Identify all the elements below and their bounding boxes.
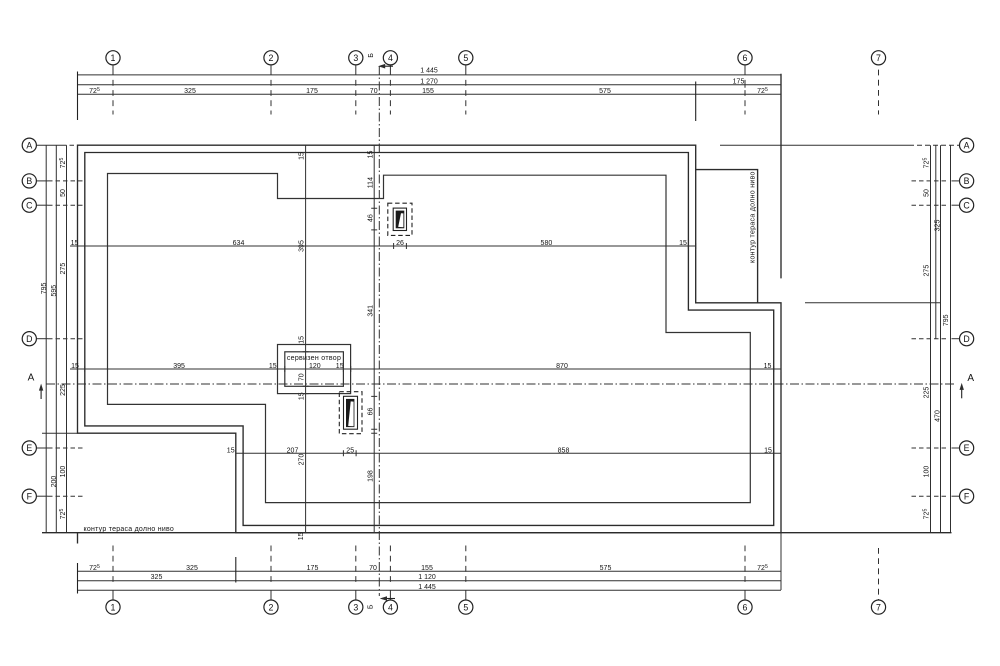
svg-text:C: C — [963, 200, 970, 210]
axis connector E left — [37, 447, 48, 449]
svg-text:контур тераса долно ниво: контур тераса долно ниво — [750, 171, 757, 263]
ticks y369 — [78, 366, 782, 372]
axis circle F left — [22, 489, 36, 503]
dim row 3 bottom — [78, 589, 782, 591]
axis connector C right — [912, 204, 947, 206]
svg-text:15: 15 — [336, 363, 344, 370]
axis circle 6 top — [738, 51, 752, 65]
axis circle E left — [22, 441, 36, 455]
svg-text:A: A — [26, 140, 32, 150]
terrace contour upper right — [696, 170, 758, 303]
svg-text:175: 175 — [733, 78, 745, 85]
svg-text:870: 870 — [556, 363, 568, 370]
svg-text:Б: Б — [368, 53, 375, 58]
axis connector B left — [37, 180, 48, 182]
svg-text:A: A — [964, 140, 970, 150]
svg-text:225: 225 — [924, 387, 931, 399]
row ticks top — [744, 82, 746, 88]
chimney 2 dashed box — [339, 392, 362, 434]
axis connector F right — [912, 495, 947, 497]
svg-text:470: 470 — [934, 410, 941, 422]
svg-text:325: 325 — [151, 574, 163, 581]
wall line x306 — [305, 145, 307, 533]
svg-text:50: 50 — [60, 189, 67, 197]
dim row 1 top — [78, 74, 782, 76]
axis connector D right — [912, 338, 947, 340]
dim line y453 — [236, 452, 781, 454]
svg-text:858: 858 — [558, 447, 570, 454]
svg-text:175: 175 — [307, 565, 319, 572]
ticks on wall x306 — [303, 153, 309, 394]
chimney 1 outer rect — [393, 208, 406, 230]
svg-text:70: 70 — [369, 565, 377, 572]
svg-text:C: C — [26, 200, 33, 210]
svg-text:575: 575 — [599, 88, 611, 95]
svg-text:595: 595 — [51, 285, 58, 297]
ticks y453 — [236, 450, 781, 456]
service opening outer box — [278, 345, 351, 394]
svg-text:E: E — [964, 443, 970, 453]
svg-text:155: 155 — [422, 88, 434, 95]
svg-text:7: 7 — [876, 602, 881, 612]
svg-text:70: 70 — [298, 373, 305, 381]
axis circle 7 bottom — [871, 600, 885, 614]
terrace left edge tail — [77, 533, 79, 544]
axis circle 1 top — [106, 51, 120, 65]
svg-text:155: 155 — [421, 565, 433, 572]
terrace top reference line left — [42, 432, 78, 434]
svg-text:795: 795 — [41, 282, 48, 294]
axis connector B right — [912, 180, 947, 182]
svg-text:15: 15 — [71, 363, 79, 370]
axis connector C left — [37, 204, 48, 206]
axis circle 6 bottom — [738, 600, 752, 614]
svg-text:50: 50 — [924, 189, 931, 197]
svg-text:6: 6 — [743, 602, 748, 612]
svg-text:580: 580 — [541, 240, 553, 247]
svg-text:15: 15 — [298, 532, 305, 540]
svg-text:275: 275 — [924, 265, 931, 277]
svg-text:15: 15 — [298, 152, 305, 160]
axis circle 3 bottom — [349, 600, 363, 614]
dim line right partial — [935, 145, 937, 339]
svg-text:634: 634 — [233, 240, 245, 247]
axis circle D right — [960, 332, 974, 346]
ticks y246 — [78, 243, 696, 249]
svg-text:контур тераса долно ниво: контур тераса долно ниво — [84, 526, 175, 533]
svg-text:1 445: 1 445 — [420, 68, 438, 75]
svg-text:15: 15 — [764, 363, 772, 370]
svg-text:E: E — [26, 443, 32, 453]
svg-text:F: F — [27, 491, 33, 501]
axis circle E right — [960, 441, 974, 455]
svg-text:325: 325 — [184, 88, 196, 95]
svg-text:114: 114 — [368, 177, 375, 188]
axis circle 5 top — [459, 51, 473, 65]
svg-text:A: A — [967, 373, 974, 384]
chimney 1 inner flue — [396, 211, 405, 229]
svg-text:100: 100 — [60, 466, 67, 478]
svg-text:D: D — [963, 334, 969, 344]
axis connector F left — [37, 495, 48, 497]
svg-text:795: 795 — [943, 314, 950, 326]
svg-text:325: 325 — [186, 565, 198, 572]
svg-text:225: 225 — [60, 384, 67, 396]
svg-text:F: F — [964, 491, 970, 501]
service opening inner box — [285, 352, 344, 387]
axis circle 5 bottom — [459, 600, 473, 614]
left border tick bottom — [77, 563, 79, 594]
dim row 1 bottom — [78, 570, 782, 572]
svg-text:B: B — [26, 176, 32, 186]
long tick x696 top — [695, 82, 697, 122]
axis circle C right — [960, 198, 974, 212]
svg-text:сервизен отвор: сервизен отвор — [287, 355, 341, 362]
axis connector E right — [912, 447, 947, 449]
svg-text:175: 175 — [306, 88, 318, 95]
right border line x781 top — [780, 74, 782, 279]
axis circle 4 top — [383, 51, 397, 65]
axis risers dashed top — [113, 70, 879, 115]
svg-text:15: 15 — [764, 447, 772, 454]
terrace contour lower level bottom line — [42, 532, 952, 534]
svg-text:66: 66 — [368, 408, 375, 416]
svg-text:1 445: 1 445 — [418, 584, 436, 591]
long tick x236 bottom — [235, 557, 237, 583]
axis circle A left — [22, 138, 36, 152]
dim line right outer — [950, 145, 952, 533]
chimney 2 inner flue — [346, 399, 354, 427]
chimney 2 outer rect — [344, 396, 358, 429]
svg-text:270: 270 — [298, 454, 305, 466]
dim row 2 top — [78, 84, 782, 86]
svg-text:46: 46 — [368, 214, 375, 222]
svg-text:5: 5 — [463, 602, 468, 612]
svg-text:15: 15 — [298, 336, 305, 344]
svg-text:26: 26 — [396, 240, 404, 247]
axis circle 1 bottom — [106, 600, 120, 614]
axis circle 4 bottom — [383, 600, 397, 614]
svg-text:A: A — [28, 373, 35, 384]
svg-text:275: 275 — [60, 263, 67, 275]
dim line y369 — [70, 368, 781, 370]
svg-text:25: 25 — [346, 447, 354, 454]
axis connector D left — [37, 338, 48, 340]
section axis A dash-dot horizontal — [46, 383, 956, 385]
axis circle D left — [22, 332, 36, 346]
dim line y246 — [70, 245, 696, 247]
dim line right inner — [930, 145, 932, 533]
axis circle 7 top — [871, 51, 885, 65]
svg-text:100: 100 — [924, 466, 931, 478]
svg-text:3: 3 — [353, 602, 358, 612]
dim line left inner — [66, 145, 68, 533]
dim line left outer — [45, 145, 47, 533]
svg-text:1 270: 1 270 — [420, 78, 438, 85]
dim line right middle — [940, 145, 942, 533]
svg-text:7: 7 — [876, 53, 881, 63]
svg-text:395: 395 — [298, 240, 305, 252]
section arrow left — [40, 387, 42, 400]
svg-text:15: 15 — [227, 447, 235, 454]
ticks on dim x374 — [371, 145, 377, 533]
svg-text:2: 2 — [269, 602, 274, 612]
axis circle C left — [22, 198, 36, 212]
svg-text:1: 1 — [111, 602, 116, 612]
axis stems bottom — [113, 590, 745, 600]
dim line left middle — [55, 145, 57, 533]
building outline — [108, 174, 751, 503]
svg-text:4: 4 — [388, 602, 393, 612]
svg-text:B: B — [964, 176, 970, 186]
svg-text:575: 575 — [600, 565, 612, 572]
axis circle A right — [960, 138, 974, 152]
axis stems top — [113, 65, 745, 75]
svg-text:200: 200 — [51, 476, 58, 488]
chimney 1 dashed box — [388, 203, 412, 235]
svg-text:15: 15 — [269, 363, 277, 370]
inner roof contour — [85, 153, 774, 526]
axis risers dashed bottom — [113, 546, 879, 600]
svg-text:2: 2 — [269, 53, 274, 63]
axis circle B right — [960, 174, 974, 188]
svg-text:325: 325 — [934, 220, 941, 232]
dim row 3 top — [78, 93, 782, 95]
svg-text:Б: Б — [368, 604, 375, 609]
section arrow right — [961, 386, 963, 399]
svg-text:70: 70 — [370, 88, 378, 95]
outer roof contour — [78, 145, 782, 533]
left border tick top — [77, 72, 79, 121]
svg-text:15: 15 — [368, 151, 375, 159]
svg-text:6: 6 — [743, 53, 748, 63]
axis circle 2 top — [264, 51, 278, 65]
svg-text:4: 4 — [388, 53, 393, 63]
svg-text:1 120: 1 120 — [418, 574, 436, 581]
svg-text:15: 15 — [71, 240, 79, 247]
axis connector A left — [37, 144, 62, 146]
svg-text:198: 198 — [368, 470, 375, 482]
axis circle 2 bottom — [264, 600, 278, 614]
right border line x781 bottom extension — [780, 533, 782, 590]
svg-text:207: 207 — [287, 447, 299, 454]
axis circle 3 top — [349, 51, 363, 65]
axis circle B left — [22, 174, 36, 188]
axis B dash-dot vertical — [378, 66, 380, 596]
svg-text:5: 5 — [463, 53, 468, 63]
dim line x374 — [373, 145, 375, 533]
svg-text:15: 15 — [679, 240, 687, 247]
svg-text:1: 1 — [111, 53, 116, 63]
svg-text:341: 341 — [368, 305, 375, 317]
svg-text:395: 395 — [173, 363, 185, 370]
svg-text:120: 120 — [309, 363, 321, 370]
terrace bottom reference line right — [805, 302, 941, 304]
axis A line right extension — [720, 144, 909, 146]
svg-text:3: 3 — [353, 53, 358, 63]
dim row 2 bottom — [78, 580, 782, 582]
svg-text:D: D — [26, 334, 32, 344]
axis circle F right — [960, 489, 974, 503]
